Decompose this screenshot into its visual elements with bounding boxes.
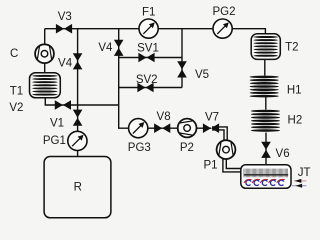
- svg-text:PG1: PG1: [43, 135, 66, 147]
- svg-text:T1: T1: [10, 86, 23, 98]
- svg-text:JT: JT: [298, 167, 311, 179]
- svg-text:PG2: PG2: [212, 6, 235, 18]
- svg-text:H1: H1: [287, 85, 302, 97]
- svg-text:P1: P1: [203, 160, 217, 172]
- svg-text:R: R: [74, 182, 82, 194]
- svg-text:SV1: SV1: [137, 43, 159, 55]
- svg-text:V7: V7: [205, 112, 219, 124]
- svg-text:V8: V8: [157, 111, 171, 123]
- svg-text:V1: V1: [50, 117, 64, 129]
- svg-text:PG3: PG3: [128, 142, 151, 154]
- svg-text:V3: V3: [58, 11, 72, 23]
- svg-text:SV2: SV2: [136, 74, 158, 86]
- svg-text:F1: F1: [142, 7, 155, 19]
- svg-text:V2: V2: [9, 102, 23, 114]
- svg-text:P2: P2: [180, 142, 194, 154]
- svg-text:T2: T2: [285, 41, 298, 53]
- svg-text:V4: V4: [98, 42, 113, 54]
- svg-text:V5: V5: [195, 69, 209, 81]
- svg-text:V4: V4: [58, 57, 73, 69]
- svg-text:C: C: [10, 48, 18, 60]
- svg-text:V6: V6: [276, 148, 290, 160]
- svg-text:H2: H2: [288, 114, 303, 126]
